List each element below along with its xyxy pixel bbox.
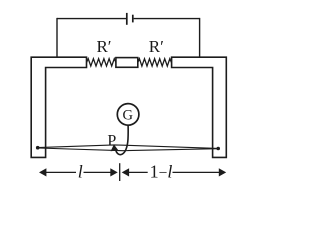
jockey arrowhead at P (111, 144, 119, 151)
wire top-right segment (134, 18, 200, 20)
right copper strip (L-shaped) (172, 57, 227, 157)
arrowhead right of 1-l (219, 168, 226, 176)
dimension line 1-l right part (173, 171, 220, 173)
terminal dot right (216, 147, 220, 151)
svg-text:1−l: 1−l (150, 162, 173, 182)
galvanometer G circle (117, 104, 139, 126)
resistor R' right zigzag (138, 59, 172, 66)
jockey stem and hook from G (116, 125, 128, 154)
dimension line l left part (45, 171, 76, 173)
dimension line 1-l left part (128, 171, 148, 173)
battery cell long plate (126, 13, 128, 25)
svg-text:G: G (123, 107, 134, 123)
resistance box between the two R' (116, 58, 138, 68)
tick divider at P (119, 163, 121, 181)
arrowhead right of l (110, 168, 117, 176)
bridge wire lower line (38, 148, 219, 151)
battery cell short plate (132, 15, 134, 23)
svg-text:R′: R′ (149, 37, 164, 56)
dimension line l right part (84, 171, 112, 173)
arrowhead left of 1-l (122, 168, 129, 176)
svg-text:l: l (78, 161, 83, 181)
arrowhead left of l (39, 168, 46, 176)
svg-text:P: P (107, 133, 116, 150)
bridge wire upper line (38, 145, 219, 149)
svg-text:R′: R′ (96, 37, 111, 56)
left copper strip (L-shaped) (31, 57, 86, 157)
wire left vertical from battery loop (56, 18, 58, 57)
terminal dot left (36, 146, 40, 150)
wire right vertical from battery loop (199, 18, 201, 57)
resistor R' left zigzag (87, 59, 116, 66)
wire top-left segment (57, 18, 126, 20)
